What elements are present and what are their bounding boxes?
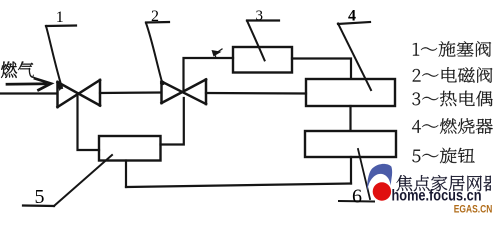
box 4 burner [306,79,395,106]
legend 3 thermocouple [412,91,492,106]
leader line label 1 [46,26,62,88]
valve 1 plug valve [58,80,101,107]
watermark logo swoosh [367,164,392,192]
wire bottom up to knob box [125,161,127,188]
svg-text:2: 2 [151,8,159,25]
wire valve2 down to knob box [161,98,184,145]
watermark logo red ball [373,182,391,200]
svg-text:3: 3 [256,8,264,24]
leader 1 end arrowhead [57,84,64,92]
wire between valve1 and valve2 [100,91,161,94]
svg-text:4: 4 [348,8,356,25]
svg-text:1: 1 [56,9,64,26]
label 1 underline [46,24,76,27]
svg-text:6: 6 [352,186,362,208]
leader 2 end arrowhead [160,81,165,85]
svg-text:EGAS.CN: EGAS.CN [454,203,493,215]
label 5 underline [23,204,54,207]
wire bottom return [126,184,351,188]
box 3 thermocouple [233,47,292,73]
legend 1 plug valve [413,41,491,57]
wire valve1 down to knob box [78,95,100,150]
leader line label 2 [146,23,162,82]
leader line label 3 [247,21,265,61]
gas flow arrow [7,79,51,91]
lower right box [305,131,396,157]
wire valve2 to burner box [206,92,306,95]
watermark text 焦点家居网 [397,175,500,191]
svg-text:home.focus.cn: home.focus.cn [392,188,482,205]
legend 4 burner [412,118,493,134]
wire gas inlet pipe [0,92,57,94]
leader line label 5 [54,155,112,206]
wire box4 down to lower box [349,106,351,130]
wire valve2 up to thermocouple line [184,58,234,92]
valve 2 solenoid valve [162,80,207,105]
leader line label 6 [358,149,370,199]
label 6 underline [339,200,374,203]
label 2 underline [146,21,169,24]
legend 5 knob [412,148,474,164]
pilot flame arrow [212,49,223,58]
box 5 knob [99,136,161,161]
label 4 underline [338,22,370,24]
legend 2 solenoid valve [413,67,493,83]
svg-text:5: 5 [35,186,45,208]
label 3 underline [247,19,279,21]
leader line label 4 [338,24,371,91]
wire lower box down [350,157,352,184]
wire box3 to box4 [292,59,351,79]
gas label 燃气 [1,61,34,77]
